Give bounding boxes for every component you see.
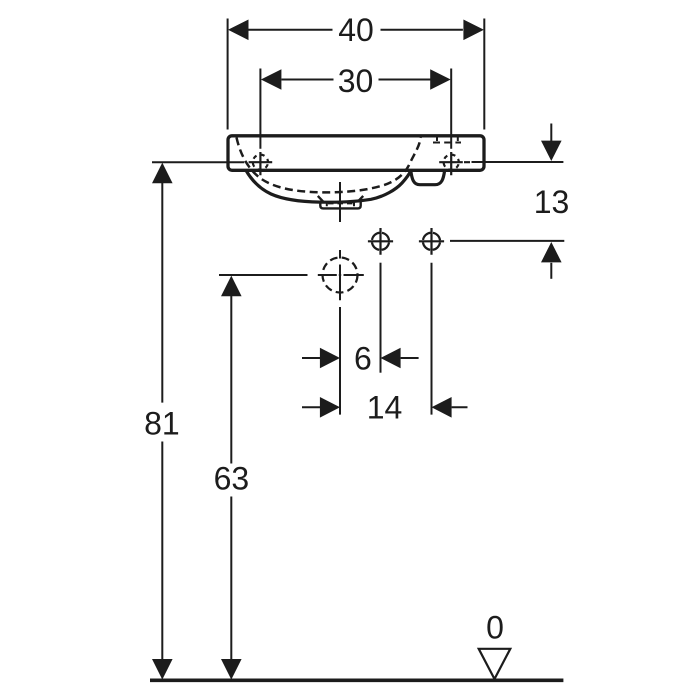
svg-text:14: 14 [367,390,403,426]
svg-text:30: 30 [338,63,374,99]
svg-text:13: 13 [534,184,570,220]
svg-text:63: 63 [214,460,250,496]
svg-text:81: 81 [144,406,180,442]
svg-text:0: 0 [486,610,504,646]
svg-text:6: 6 [354,341,372,377]
svg-text:40: 40 [338,12,374,48]
